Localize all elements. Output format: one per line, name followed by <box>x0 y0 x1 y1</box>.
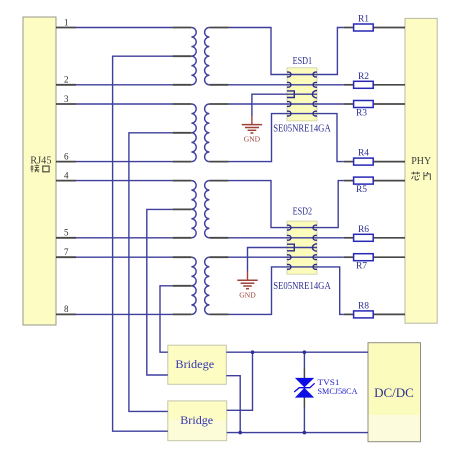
svg-text:7: 7 <box>64 247 69 257</box>
svg-text:R2: R2 <box>358 72 369 82</box>
svg-text:8: 8 <box>64 304 69 314</box>
svg-text:SMCJ58CA: SMCJ58CA <box>318 386 359 396</box>
svg-text:SE05NRE14GA: SE05NRE14GA <box>273 123 331 134</box>
svg-text:6: 6 <box>64 151 69 161</box>
svg-text:R3: R3 <box>356 109 367 119</box>
svg-text:4: 4 <box>64 170 69 180</box>
svg-text:SE05NRE14GA: SE05NRE14GA <box>273 281 331 292</box>
svg-text:R5: R5 <box>356 185 367 195</box>
svg-text:R6: R6 <box>358 225 369 235</box>
svg-text:RJ45: RJ45 <box>30 155 52 167</box>
svg-text:PHY: PHY <box>411 155 431 167</box>
svg-text:R7: R7 <box>356 262 367 272</box>
svg-text:3: 3 <box>64 94 69 104</box>
svg-text:5: 5 <box>64 228 69 238</box>
svg-text:DC/DC: DC/DC <box>374 385 414 400</box>
svg-text:GND: GND <box>244 134 261 143</box>
svg-text:R1: R1 <box>358 15 369 25</box>
svg-text:2: 2 <box>64 75 69 85</box>
svg-text:1: 1 <box>64 17 69 27</box>
svg-text:Bridege: Bridege <box>175 357 214 371</box>
svg-text:Bridge: Bridge <box>180 413 213 427</box>
svg-text:R4: R4 <box>358 149 369 159</box>
svg-text:ESD2: ESD2 <box>293 207 313 218</box>
svg-text:R8: R8 <box>358 301 369 311</box>
svg-text:ESD1: ESD1 <box>293 56 313 67</box>
svg-text:GND: GND <box>239 290 256 299</box>
